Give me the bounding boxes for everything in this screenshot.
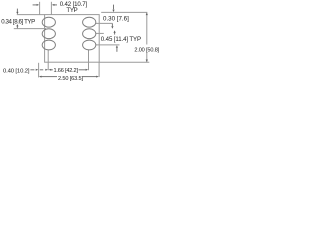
wire bottom ext line A xyxy=(38,63,40,78)
dim row1 dash between A and hole col xyxy=(40,69,43,71)
arrowhead 0.30 inner down xyxy=(111,26,113,29)
arrowhead 1.66 left at hole col left xyxy=(49,69,52,71)
dim 1.66 line right segment xyxy=(79,69,86,71)
lug L1 oval xyxy=(42,17,55,27)
wire vertical dim line 2.00 lower segment xyxy=(146,52,148,62)
dim 0.45 lower arrow stem xyxy=(116,48,118,52)
lug R2 oval xyxy=(83,29,96,39)
wire bottom reference extension line xyxy=(99,61,149,63)
arrowhead 0.34 up at lower line xyxy=(16,24,18,26)
wire top-left extension line to body top xyxy=(17,14,45,16)
arrowhead 0.30 down at top reference xyxy=(112,10,114,13)
wire vertical dim line 2.00 upper segment xyxy=(146,12,148,44)
arrowhead 2.50 left at ext A xyxy=(39,76,42,78)
dim 0.30 top arrow stem xyxy=(113,5,115,10)
wire bottom ext hole column right xyxy=(88,50,90,71)
lug L3 oval xyxy=(42,40,55,50)
dim 2.50 line right segment xyxy=(83,76,97,78)
dim 0.42 right arrow tail xyxy=(54,4,57,6)
svg-text:2.50 [63.5]: 2.50 [63.5] xyxy=(58,76,83,82)
dim 0.34 lower arrow stem xyxy=(16,25,18,28)
wire lug R2 line extension xyxy=(96,32,104,34)
wire bottom ext body-right xyxy=(98,62,100,77)
wire lug R3 line extension xyxy=(96,44,120,46)
dim 1.66 line left segment xyxy=(51,69,53,71)
wire lug R1 line extension xyxy=(96,22,113,24)
svg-text:0.34 [8.6] TYP: 0.34 [8.6] TYP xyxy=(1,19,35,26)
svg-text:2.00 [50.8]: 2.00 [50.8] xyxy=(134,47,159,53)
arrowhead row1 right at ext A xyxy=(36,69,39,71)
arrowhead 0.45 up at row3 line xyxy=(116,45,118,48)
svg-text:0.40 [10.2]: 0.40 [10.2] xyxy=(3,68,30,74)
wire top dim extension line A xyxy=(39,2,41,15)
arrowhead 1.66 right at hole col right xyxy=(86,69,89,71)
wire left lug bottom tangent extension xyxy=(14,28,46,30)
dim 2.50 line left segment xyxy=(42,76,58,78)
wire bottom ext hole column left xyxy=(47,50,49,71)
lug L2 oval xyxy=(42,29,55,39)
dim row1 tail left of ext A xyxy=(30,69,34,71)
dim 0.42 left arrow tail xyxy=(33,4,37,6)
lug R1 oval xyxy=(83,17,96,27)
arrowhead 0.30 inner up xyxy=(114,30,116,33)
arrowhead 0.42 left pointing right at A xyxy=(37,4,40,6)
dim 0.34 upper arrow stem xyxy=(16,9,18,13)
svg-text:0.45 [11.4] TYP: 0.45 [11.4] TYP xyxy=(101,36,141,43)
svg-text:1.66 [42.2]: 1.66 [42.2] xyxy=(54,68,79,74)
svg-text:0.30 [7.6]: 0.30 [7.6] xyxy=(103,15,129,22)
arrowhead 2.00 down at bottom line xyxy=(146,60,148,63)
arrowhead 2.50 right at body right ext xyxy=(96,76,99,78)
lug R3 oval xyxy=(83,40,96,50)
arrowhead row1 right at hole col left xyxy=(45,69,48,71)
arrowhead 0.34 down at top line xyxy=(16,12,18,15)
dim 0.30 inner up stem xyxy=(114,31,116,34)
arrowhead 0.42 right pointing left at B xyxy=(52,4,55,6)
body outline rectangle xyxy=(45,15,100,63)
wire top-right reference line xyxy=(101,11,147,13)
wire top dim extension line B xyxy=(50,2,52,15)
arrowhead 2.00 up at top reference line xyxy=(146,13,148,16)
svg-text:TYP: TYP xyxy=(66,7,77,14)
dim 0.30 inner down stem xyxy=(111,23,113,26)
